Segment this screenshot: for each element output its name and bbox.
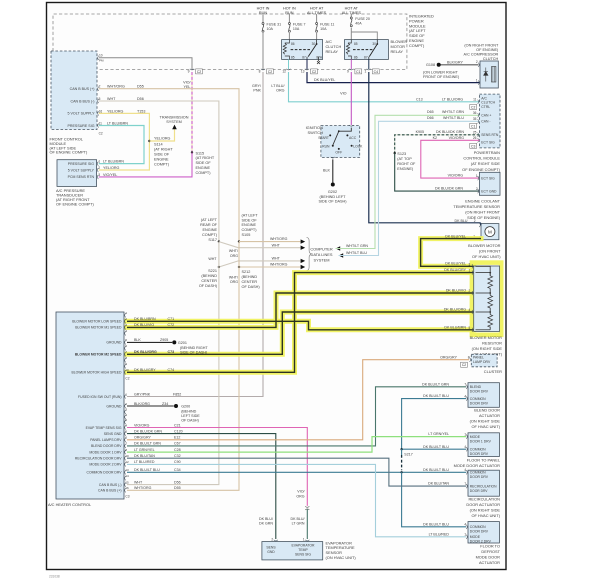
resistor element R-c [488,315,493,328]
svg-text:COMMON: COMMON [470,471,486,475]
svg-text:ECT GND: ECT GND [481,190,497,194]
sensor U3 A/C pressure transducer [57,160,97,187]
svg-text:2: 2 [271,537,273,541]
pin blend actuator 4 common [466,397,467,401]
svg-text:S117: S117 [208,238,217,242]
svg-text:10: 10 [99,53,103,57]
svg-text:DK BLU/LT GRN: DK BLU/LT GRN [422,382,449,386]
svg-text:ORG: ORG [276,89,285,93]
svg-text:GROUND: GROUND [106,404,122,408]
svg-text:TEMPERATURE SENSOR: TEMPERATURE SENSOR [453,204,500,209]
wire DK BLU blower relay 87 to blower motor [369,72,481,223]
svg-text:(BEHIND: (BEHIND [201,274,217,278]
node S114 splice [148,140,150,142]
svg-text:CAN +: CAN + [481,114,491,118]
svg-text:BLOWER MOTOR: BLOWER MOTOR [470,335,503,340]
arrow to transmission system [172,125,177,130]
wire DK BLU/VIO heater M1 speed to resistor pin 2 [127,293,474,327]
wire BLK/GRY clutch ground [441,64,479,66]
svg-text:SIDE OF DASH): SIDE OF DASH) [318,200,347,204]
connector PCM C3 [470,143,477,148]
svg-text:DOOR ACTUATOR: DOOR ACTUATOR [466,502,500,507]
wire BLK ignition to ground [332,159,334,182]
svg-text:1: 1 [303,537,305,541]
svg-text:5: 5 [99,97,101,101]
wire DK BLU/DK GRN S123 to ECT ground [395,153,480,191]
svg-text:WHT: WHT [107,97,116,101]
svg-text:WHT/: WHT/ [229,249,238,253]
svg-text:HOT AT: HOT AT [345,6,359,10]
actuator A4 floor to defrost mode door actuator [468,522,499,543]
svg-text:DK BLU/GRY: DK BLU/GRY [444,268,466,272]
svg-text:OF ENGINE): OF ENGINE) [476,48,499,52]
wire DK BLU/BRN heater low speed to resistor pin 5 [127,321,474,330]
svg-text:C1: C1 [471,124,475,128]
pin recirc actuator 7 [466,484,467,488]
pin heater 5 ground [125,340,126,344]
svg-text:F852: F852 [173,392,181,396]
svg-text:A/C: A/C [481,96,487,100]
wire WHT/ORG D55 CAN+ from FCM [99,89,239,242]
wire WHT D56 CAN- from FCM [99,101,219,242]
pin heater panel lamps drv [125,438,126,442]
pin resistor 5 [472,328,473,332]
svg-text:DOOR DRV: DOOR DRV [470,530,489,534]
svg-text:D66: D66 [427,116,434,120]
svg-text:OF DASH): OF DASH) [181,419,199,423]
svg-text:RUN: RUN [322,145,330,149]
svg-text:CAN B BUS (-): CAN B BUS (-) [71,99,95,103]
svg-text:DK BLU/DK GRN: DK BLU/DK GRN [134,429,162,433]
svg-text:WHT: WHT [208,257,217,261]
svg-text:4: 4 [464,395,466,399]
svg-text:30: 30 [372,42,376,46]
svg-text:SIDE OF ENGINE): SIDE OF ENGINE) [467,215,501,220]
svg-text:OF ENGINE COMPT): OF ENGINE COMPT) [50,150,89,155]
wire FCM pin10 to IPM connector 9 (GRY) [99,58,192,70]
pin heater 10 blower motor high speed [125,370,126,374]
svg-text:MODE DOOR: MODE DOOR [476,555,501,560]
ground G202 [331,183,335,187]
pin heater 2b ground [125,404,126,408]
svg-text:FUSE 11: FUSE 11 [320,23,334,27]
wire LT BLU/BRN pressure signal [99,126,144,164]
contact ACC [346,134,348,136]
svg-text:BLOWER MOTOR M1 SPEED: BLOWER MOTOR M1 SPEED [75,326,122,330]
pin FCM 10 [98,56,99,60]
svg-text:LT BLU/RED: LT BLU/RED [429,532,450,536]
svg-text:5: 5 [469,326,471,330]
svg-text:LT BLU/BRN: LT BLU/BRN [107,121,128,125]
wire WHT data line arrow 2 [219,242,301,248]
svg-text:LT GRN: LT GRN [292,522,305,526]
resistor internal network [476,266,491,276]
pin heater 15 CAN B BUS (-) [125,483,126,487]
svg-text:10A: 10A [293,27,300,31]
svg-text:GND: GND [267,550,275,554]
svg-text:C2: C2 [197,70,201,74]
wire WHT data line arrow 3 [219,261,301,267]
svg-text:C2: C2 [471,105,475,109]
svg-text:RIGHT OF: RIGHT OF [397,162,416,166]
svg-text:BLK/ORG: BLK/ORG [134,402,150,406]
pin PCM 36 CAN + [478,113,479,117]
resistor element R-b [488,295,493,308]
connector PCM C2 [470,104,477,109]
svg-text:D56: D56 [137,97,144,101]
component L1 A/C compressor clutch [480,61,498,88]
wire ORG/GRY panel lamps to cluster [127,360,469,440]
brace computer data lines [307,238,312,271]
svg-text:87: 87 [364,55,368,59]
svg-text:DOOR DRV: DOOR DRV [470,390,489,394]
svg-text:VIO/ORG: VIO/ORG [134,423,150,427]
pin ECT 2 [478,189,479,193]
svg-text:SWITCH: SWITCH [308,130,324,135]
svg-text:VIO: VIO [340,92,346,96]
svg-text:1: 1 [464,433,466,437]
pin defrost actuator 4 common [466,525,467,529]
connector 9 C2 (FCM feed) [190,69,194,70]
svg-text:C2: C2 [268,70,272,74]
svg-text:COMMON: COMMON [470,448,486,452]
svg-text:MODE DOOR ACTUATOR: MODE DOOR ACTUATOR [454,463,501,468]
svg-text:ENGINE COOLANT: ENGINE COOLANT [465,198,500,203]
pin heater 7 blower motor M2 speed (highlighted) [125,352,126,356]
svg-text:11: 11 [99,121,103,125]
svg-text:START: START [318,136,329,140]
svg-text:1: 1 [476,79,478,83]
svg-text:S114: S114 [154,142,163,146]
svg-text:(BEHIND: (BEHIND [242,275,258,279]
wire LT GRN/YEL mode door 1 drive [127,437,466,453]
svg-text:S115: S115 [196,151,205,155]
pin evap 1 EVAPORATOR TEMP SENS SIG [305,540,309,541]
svg-text:PCM SENS RTN: PCM SENS RTN [68,175,95,179]
svg-text:12: 12 [125,460,129,464]
wire DK BLU/YEL relay 87 to compressor clutch [307,72,480,83]
svg-text:12: 12 [282,70,286,74]
connector inline evap sensor [305,506,309,507]
svg-text:LEFT SIDE: LEFT SIDE [181,414,200,418]
svg-text:MODE DOOR 1 DRV: MODE DOOR 1 DRV [89,450,122,454]
svg-text:S105: S105 [242,233,251,237]
svg-text:C72: C72 [168,323,175,327]
svg-text:BLK: BLK [134,338,141,342]
contact LOCK [351,145,353,147]
svg-text:TEMP: TEMP [298,548,308,552]
svg-text:(ON RIGHT FRONT: (ON RIGHT FRONT [464,43,499,47]
wire DK BLU/LT BLU common to blend actuator [402,399,467,450]
pin ECT 1 [478,176,479,180]
svg-text:PANEL: PANEL [473,356,484,360]
svg-text:OFF: OFF [335,151,342,155]
svg-text:COMPUTER: COMPUTER [310,247,332,252]
svg-text:WHT: WHT [134,480,143,484]
actuator A3 recirculation door actuator [468,470,499,496]
pin blend actuator 7 [466,385,467,389]
svg-text:C28: C28 [174,448,181,452]
switch S1 ignition switch [321,126,360,158]
pin heater 8 (unused) [125,358,126,362]
svg-text:ENGINE: ENGINE [242,223,257,227]
svg-text:40A: 40A [355,22,362,26]
svg-text:ECT SIG: ECT SIG [481,140,495,144]
svg-text:CLUSTER: CLUSTER [484,369,502,374]
svg-text:COMPT): COMPT) [154,162,170,166]
wire DK BLU/LT GRN evap sensor sig [306,509,308,539]
svg-text:PNK: PNK [253,89,261,93]
svg-text:PRESSURE SIG: PRESSURE SIG [68,124,95,128]
svg-text:M: M [488,230,492,235]
svg-text:OF ENGINE COMPT): OF ENGINE COMPT) [56,202,95,207]
svg-text:ENGINE: ENGINE [154,157,169,161]
svg-text:ENGINE): ENGINE) [397,167,414,171]
pin cluster 8 [470,358,471,362]
svg-text:YEL/ORG: YEL/ORG [154,137,171,141]
svg-text:ORG: ORG [296,494,304,498]
svg-text:C34: C34 [174,468,181,472]
svg-text:CAN -: CAN - [481,120,490,124]
wire relay 87 stub [306,59,308,69]
svg-text:25: 25 [473,131,477,135]
svg-text:DK BLU/: DK BLU/ [259,517,273,521]
svg-text:EVAPORATOR: EVAPORATOR [292,544,316,548]
svg-text:ORG/GRY: ORG/GRY [440,355,458,359]
svg-text:REAR OF: REAR OF [200,223,218,227]
svg-text:(BEHIND LEFT: (BEHIND LEFT [320,195,347,199]
svg-text:PANEL LAMPS DRV: PANEL LAMPS DRV [90,438,122,442]
svg-text:231038: 231038 [49,575,60,579]
svg-text:RECIRCULATION: RECIRCULATION [469,496,501,501]
connector 13 C2 [305,69,309,70]
svg-text:G200: G200 [181,405,190,409]
svg-text:BLOWER MOTOR HIGH SPEED: BLOWER MOTOR HIGH SPEED [71,371,122,375]
svg-text:COMMON: COMMON [470,525,486,529]
wire WHT/LT BLU from data lines to PCM CAN- [339,253,344,257]
pin heater blend door drv [125,444,126,448]
svg-text:FRONT OF ENGINE): FRONT OF ENGINE) [423,75,460,79]
svg-text:RECIRCULATION DOOR DRV: RECIRCULATION DOOR DRV [75,457,122,461]
wire WHT/ORG data line arrow 4 [239,266,301,268]
svg-text:CTRL: CTRL [481,105,490,109]
svg-text:85: 85 [354,42,358,46]
svg-text:C4: C4 [374,70,378,74]
svg-text:SYSTEM: SYSTEM [314,258,330,263]
svg-text:C21: C21 [174,423,181,427]
svg-text:DK BLU/LT BLU: DK BLU/LT BLU [134,468,160,472]
svg-text:(AT RIGHT: (AT RIGHT [196,156,215,160]
svg-text:WHT/LT BLU: WHT/LT BLU [346,251,367,255]
svg-text:10: 10 [125,454,129,458]
svg-text:S212: S212 [242,270,251,274]
svg-text:BLEND DOOR DRV: BLEND DOOR DRV [91,444,122,448]
svg-text:OF HVAC UNIT): OF HVAC UNIT) [472,254,501,259]
pin heater 4 (unused) [125,331,126,335]
svg-text:CLUTCH: CLUTCH [483,57,499,61]
wire WHT/LT GRN from data lines to PCM CAN+ [336,246,341,250]
svg-text:CAN B BUS (+): CAN B BUS (+) [70,87,95,91]
svg-text:DK BLU/ORG: DK BLU/ORG [444,308,466,312]
svg-text:SENS: SENS [266,546,276,550]
svg-text:3: 3 [469,262,471,266]
motor M1 blower motor [481,224,499,240]
svg-text:86: 86 [354,55,358,59]
svg-text:3: 3 [98,173,100,177]
svg-text:DK BLU/YEL: DK BLU/YEL [445,234,466,238]
svg-text:DEFROST: DEFROST [481,549,500,554]
svg-text:WHT/LT GRN: WHT/LT GRN [442,110,464,114]
svg-text:DOOR 1 DRV: DOOR 1 DRV [470,439,492,443]
wire DK BLU/ORG heater M2 speed to resistor pin 4 [127,312,474,354]
wire LT BLU/ORG A/C relay coil to PCM pin 11 [289,72,480,102]
svg-text:DK BLU/TAN: DK BLU/TAN [428,482,449,486]
svg-text:4: 4 [464,468,466,472]
wire YEL/ORG 5V supply [99,113,150,170]
svg-text:(AT RIGHT: (AT RIGHT [154,147,173,151]
svg-text:D55: D55 [174,486,181,490]
svg-text:C67: C67 [174,442,181,446]
svg-text:HOT IN: HOT IN [257,6,270,10]
svg-text:(ON RIGHT FRONT: (ON RIGHT FRONT [465,210,500,215]
wire DK BLU/DK GRN PCM sens rtn to S123 (dashed) [395,135,480,153]
svg-text:LT BLU/ORG: LT BLU/ORG [442,98,463,102]
wire BLK heater ground [127,341,172,343]
svg-text:C73: C73 [168,350,175,354]
svg-text:A/C COMPRESSOR: A/C COMPRESSOR [463,53,498,57]
pin heater recirculation door drv [125,456,126,460]
resistor element R-a [488,276,493,289]
svg-text:C2: C2 [125,377,129,381]
svg-text:VIO/ORG: VIO/ORG [449,136,465,140]
svg-text:(ON HVAC UNIT): (ON HVAC UNIT) [326,555,357,560]
svg-text:MODE DOOR 2 DRV: MODE DOOR 2 DRV [89,463,122,467]
svg-text:WHT: WHT [272,257,281,261]
connector 12 [286,69,290,70]
connector PCM C1 [470,123,477,128]
svg-text:FUSE 31: FUSE 31 [267,23,282,27]
svg-text:7: 7 [464,383,466,387]
pin resistor 3 [472,264,473,268]
wire common bus dashed splice segment [401,449,403,455]
wire DK BLU/LT BLU common door bus [127,471,466,473]
pin heater 3b (unused) [125,410,126,414]
svg-text:COMPT): COMPT) [202,233,218,237]
svg-text:S217: S217 [404,452,412,456]
svg-text:SENS GND: SENS GND [104,432,122,436]
svg-text:CAN B BUS (-): CAN B BUS (-) [99,483,122,487]
wire VIO/ORG PCM to ECT signal [421,140,480,178]
pin heater 16 CAN B BUS (+) [125,488,126,492]
svg-text:K2: K2 [433,136,437,140]
svg-text:OF DASH): OF DASH) [242,285,261,289]
svg-text:CONTROL MODULE: CONTROL MODULE [463,156,500,161]
pin evap 2 SENS GND [274,540,278,541]
svg-text:WHT/ORG: WHT/ORG [270,263,288,267]
svg-text:GRY/: GRY/ [252,84,262,88]
svg-text:OF ENGINE COMPT): OF ENGINE COMPT) [462,167,501,172]
pin heater sens gnd [125,432,126,436]
svg-text:CENTER: CENTER [242,280,258,284]
fuse F20 [350,16,352,17]
svg-text:4: 4 [469,308,471,312]
splice S115 [191,151,193,153]
svg-text:S123: S123 [397,152,406,156]
svg-text:HOT AT: HOT AT [310,6,324,10]
svg-text:DK BLU/LT BLU: DK BLU/LT BLU [423,394,449,398]
pin heater 6 (unused) [125,346,126,350]
svg-text:DK BLU/VIO: DK BLU/VIO [134,323,154,327]
svg-text:1: 1 [98,160,100,164]
svg-text:COMMON: COMMON [470,397,486,401]
svg-text:TRANSMISSION: TRANSMISSION [160,116,189,120]
svg-text:(BEHIND RIGHT: (BEHIND RIGHT [180,346,208,350]
svg-text:(AT LEFT: (AT LEFT [201,218,218,222]
svg-text:CLUTCH: CLUTCH [481,101,495,105]
svg-text:OF DASH): OF DASH) [199,284,218,288]
svg-text:2: 2 [476,187,478,191]
svg-text:WHT/ORG: WHT/ORG [107,85,125,89]
svg-text:DK BLU/VIO: DK BLU/VIO [446,289,466,293]
svg-text:DK BLU/GRY: DK BLU/GRY [134,368,156,372]
svg-text:DOOR DRV: DOOR DRV [470,475,489,479]
highlight glow for blower resistor circuit [421,239,481,267]
contact START [329,134,331,136]
wire VIO/YEL from connector 9 down to S115 [191,72,193,153]
module U1 A/C heater control [56,312,124,499]
svg-text:HOT IN: HOT IN [283,6,296,10]
pin resistor 4 [472,310,473,314]
svg-text:WHT/: WHT/ [229,275,238,279]
svg-text:C32: C32 [174,454,181,458]
svg-text:LT BLU/BRN: LT BLU/BRN [103,160,124,164]
svg-text:DOOR DRV: DOOR DRV [470,489,489,493]
svg-text:1: 1 [364,70,366,74]
pin heater common door drv [125,470,126,474]
wire VIO blower relay coil to ignition switch [350,72,352,125]
contact OFF [338,148,340,150]
svg-text:FUSED IGN SW OUT (RUN): FUSED IGN SW OUT (RUN) [78,395,121,399]
svg-text:DK BLU: DK BLU [455,219,468,223]
svg-text:(AT LEFT: (AT LEFT [242,213,259,217]
connector 9 C1 [349,69,353,70]
svg-text:DOOR DRV: DOOR DRV [470,452,489,456]
svg-text:(AT TOP: (AT TOP [397,157,412,161]
module U2 front control module [51,51,97,130]
pin resistor 2 [472,291,473,295]
svg-text:PRESSURE SIG: PRESSURE SIG [68,162,95,166]
pin heater 9 (unused) [125,364,126,368]
svg-text:RELAY: RELAY [391,49,404,54]
svg-text:4: 4 [464,523,466,527]
svg-text:DK BLU/BRN: DK BLU/BRN [444,325,466,329]
svg-text:13: 13 [301,70,305,74]
svg-text:13: 13 [125,468,129,472]
svg-text:(ON RIGHT SIDE: (ON RIGHT SIDE [470,419,501,424]
svg-text:DOOR DRV: DOOR DRV [470,401,489,405]
svg-text:YEL/ORG: YEL/ORG [107,109,124,113]
svg-text:DK BLU/YEL: DK BLU/YEL [314,78,335,82]
svg-text:(AT RIGHT SIDE: (AT RIGHT SIDE [471,161,501,166]
svg-text:2: 2 [476,60,478,64]
svg-text:35: 35 [473,117,477,121]
svg-text:CENTER: CENTER [201,279,217,283]
module U4 powertrain control module [479,94,500,148]
svg-text:CAN B BUS (+): CAN B BUS (+) [98,489,121,493]
pin ignition bottom [331,157,335,158]
svg-text:SENS SIG: SENS SIG [295,552,311,556]
svg-text:LOCK: LOCK [353,145,363,149]
